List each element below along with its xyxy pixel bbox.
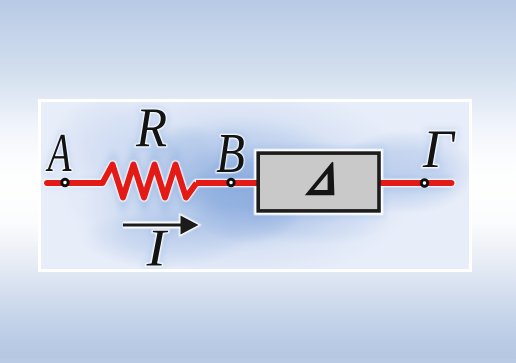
- svg-text:I: I: [146, 219, 169, 277]
- blue glow cloud behind circuit: [45, 84, 475, 284]
- panel (white frame): [38, 99, 472, 272]
- wire box to Gamma: [381, 180, 452, 186]
- node A terminal: [62, 179, 68, 185]
- svg-text:A: A: [45, 122, 72, 183]
- component box U1 (Delta element): [258, 153, 379, 211]
- wire A to resistor: [47, 180, 103, 186]
- label A: [45, 122, 72, 183]
- label R: [135, 96, 167, 159]
- label B: [216, 123, 245, 185]
- svg-text:Γ: Γ: [422, 119, 456, 179]
- node Gamma terminal: [421, 180, 427, 186]
- svg-text:B: B: [216, 123, 245, 185]
- current direction arrow: [123, 224, 185, 227]
- svg-text:R: R: [135, 96, 167, 159]
- value label Delta: [305, 162, 335, 195]
- label Gamma: [422, 119, 456, 179]
- wire resistor to B to box: [196, 180, 257, 186]
- white halo under circuit art: [45, 96, 456, 277]
- resistor R (zigzag body): [103, 165, 197, 198]
- node B terminal: [228, 179, 234, 185]
- panel interior: [41, 102, 469, 269]
- label I: [146, 219, 169, 277]
